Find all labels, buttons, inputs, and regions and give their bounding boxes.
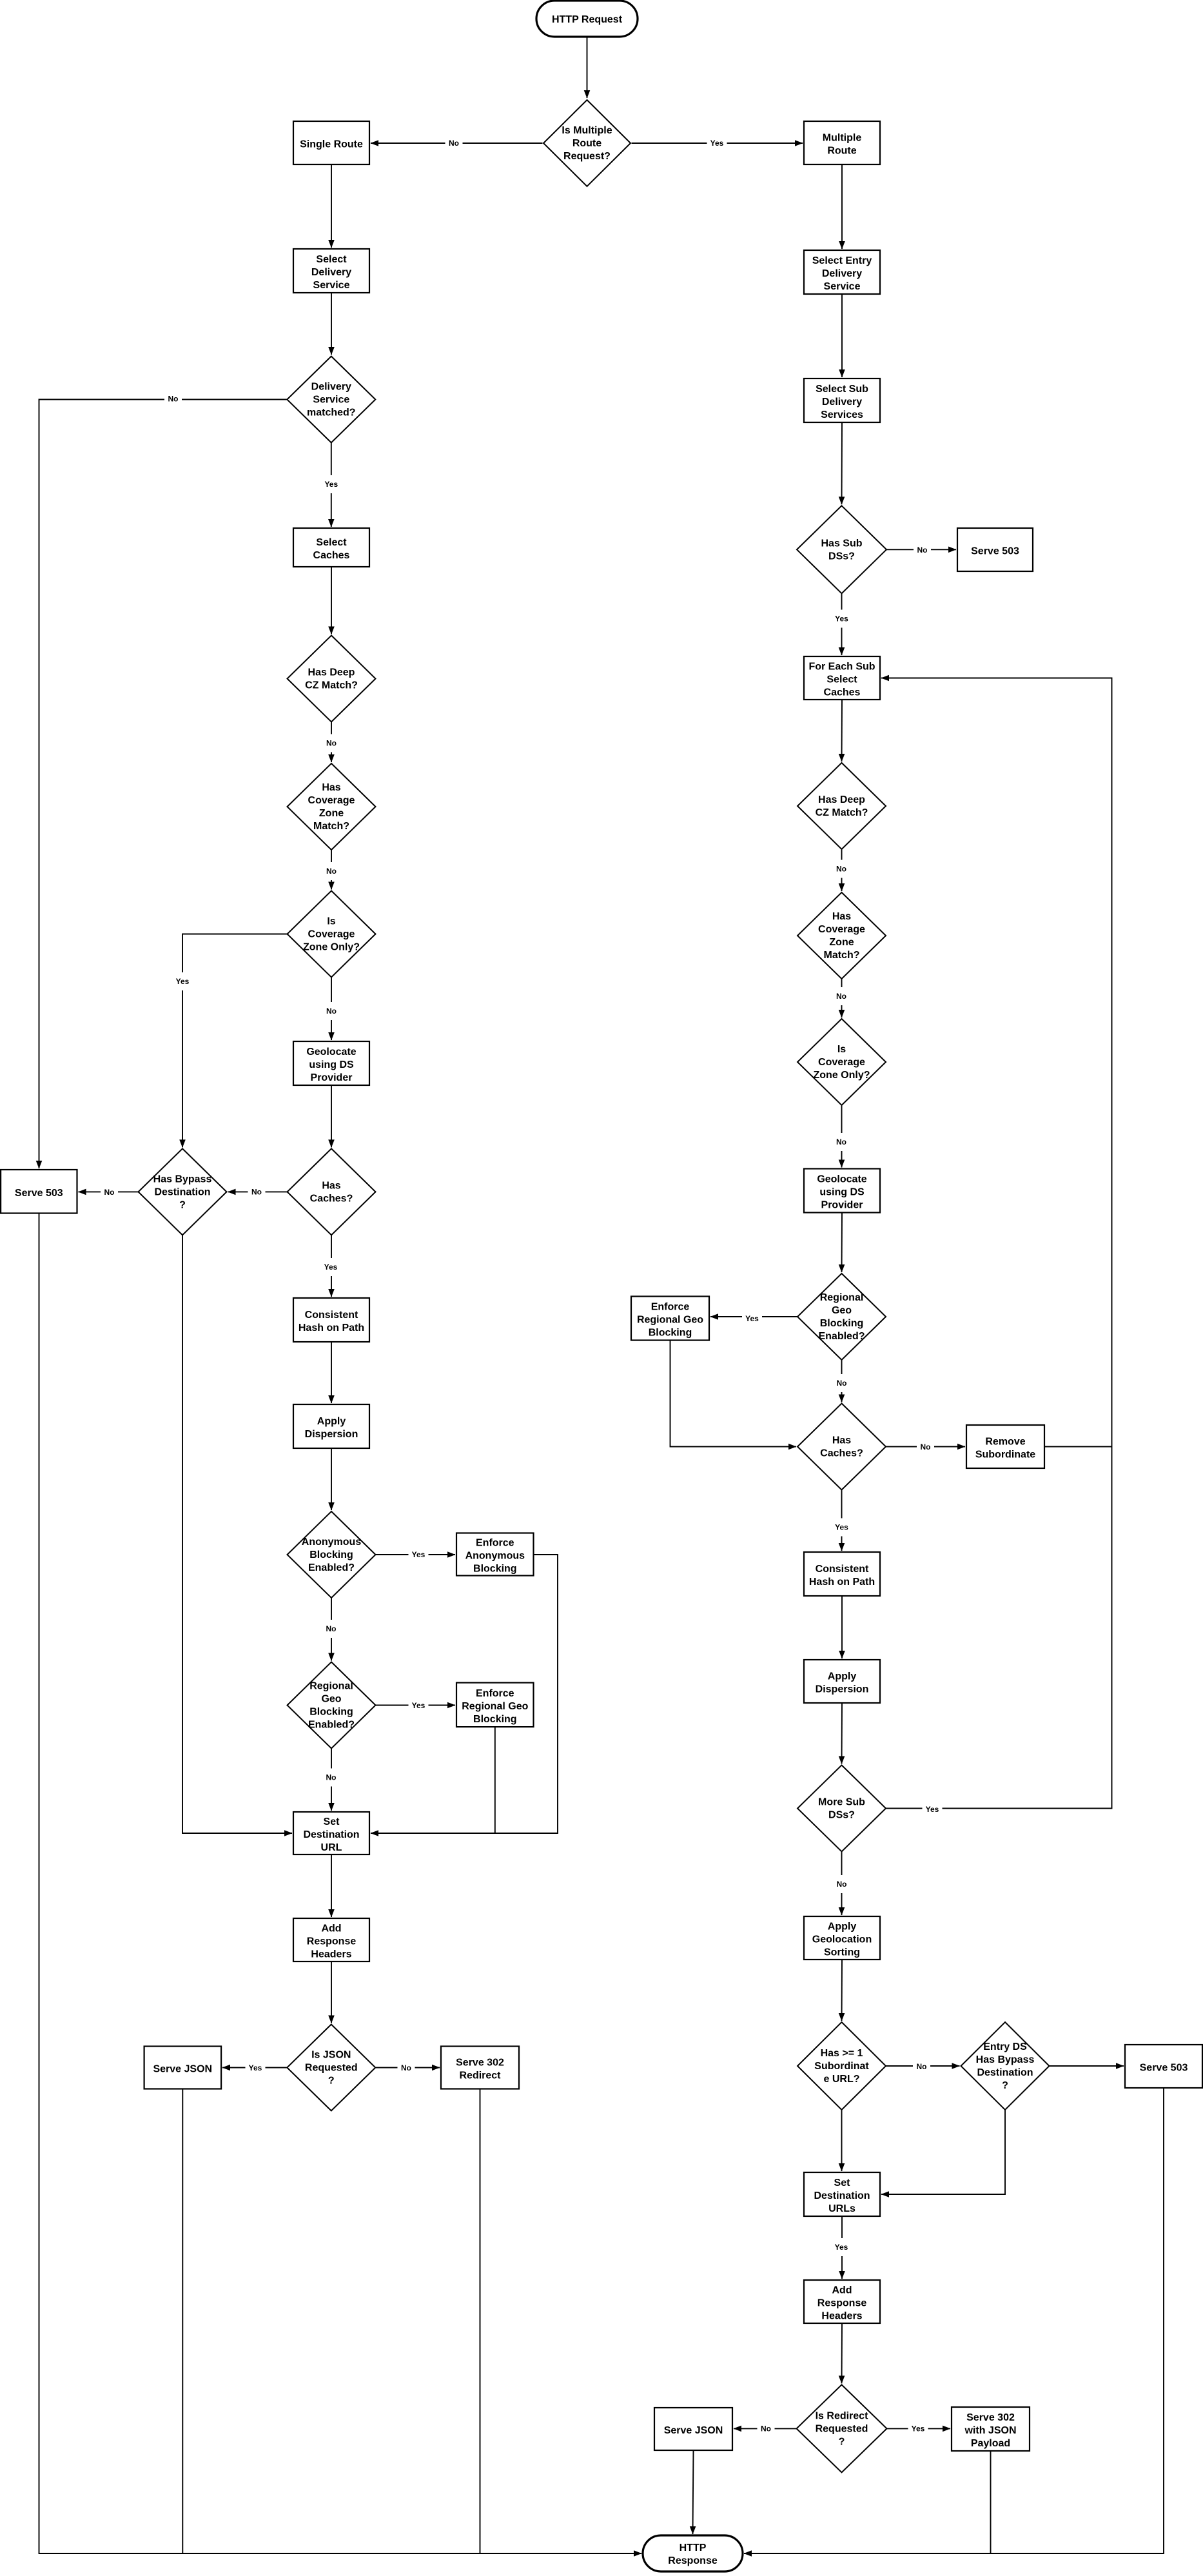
Is Coverage Zone Only? decision (right) — [797, 1019, 886, 1105]
svg-text:Enabled?: Enabled? — [818, 1331, 865, 1342]
svg-text:Delivery: Delivery — [311, 382, 351, 393]
svg-text:Caches: Caches — [313, 550, 350, 561]
svg-text:Geolocate: Geolocate — [817, 1174, 866, 1185]
Has Caches? decision (right) — [797, 1404, 886, 1490]
svg-text:URL: URL — [321, 1842, 342, 1853]
label No — [164, 390, 182, 408]
svg-text:Has Deep: Has Deep — [308, 667, 355, 678]
wire: Is Coverage Zone Only? No to Geolocate using DS Provider (right) — [841, 1105, 843, 1168]
wire: Serve 302 Redirect to HTTP Response junction — [480, 2089, 481, 2554]
label No — [323, 734, 340, 752]
svg-text:Anonymous: Anonymous — [302, 1537, 362, 1548]
wire: For Each Sub Select Caches to Has Deep CZ Match? — [841, 700, 843, 762]
Is Coverage Zone Only? decision (left) — [288, 891, 376, 978]
wire: Entry DS Has Bypass Destination? to Set Destination URLs — [881, 2110, 1005, 2194]
svg-text:Service: Service — [824, 281, 861, 292]
wire: Set Destination URL to Add Response Headers — [331, 1854, 332, 1917]
Has Caches? decision (left) — [288, 1148, 376, 1235]
wire: Delivery Service matched? Yes to Select Caches — [331, 443, 332, 527]
Select Entry Delivery Service box — [804, 250, 880, 294]
svg-text:Yes: Yes — [710, 139, 724, 148]
Serve 302 Redirect box — [441, 2047, 519, 2089]
wire: Has Caches? No to Has Bypass Destination? — [228, 1191, 288, 1192]
wire: Has Deep CZ Match? No to Has Coverage Zone Match? — [331, 722, 332, 763]
svg-text:Zone: Zone — [829, 937, 854, 948]
svg-text:No: No — [326, 867, 337, 876]
svg-text:Set: Set — [324, 1816, 340, 1827]
wire: Serve JSON to HTTP Response — [693, 2450, 694, 2534]
wire: Is Coverage Zone Only? No to Geolocate using DS Provider — [331, 978, 332, 1041]
svg-text:No: No — [326, 739, 337, 748]
svg-text:Headers: Headers — [311, 1949, 351, 1960]
svg-text:Dispersion: Dispersion — [305, 1429, 358, 1440]
svg-text:No: No — [837, 1379, 847, 1388]
svg-text:No: No — [917, 2062, 927, 2071]
svg-text:Provider: Provider — [821, 1200, 863, 1211]
wire: Anonymous Blocking Enabled? Yes to Enforce Anonymous Blocking — [376, 1554, 456, 1555]
svg-text:Response: Response — [307, 1936, 357, 1947]
Serve 302 with JSON Payload box — [952, 2407, 1030, 2451]
wire: Regional Geo Blocking Enabled? Yes to Enforce Regional Geo Blocking (right) — [710, 1316, 797, 1317]
wire: More Sub DSs? Yes loop to For Each Sub Select Caches — [881, 678, 1112, 1809]
svg-text:No: No — [168, 395, 179, 404]
svg-text:Request?: Request? — [563, 151, 611, 162]
wire: Is Redirect Requested? Yes to Serve 302 with JSON Payload — [887, 2428, 951, 2429]
Has Sub DSs? decision — [797, 506, 886, 593]
svg-text:Caches?: Caches? — [820, 1448, 863, 1459]
wire: Anonymous Blocking Enabled? No to Regional Geo Blocking Enabled? — [331, 1598, 332, 1661]
svg-text:Apply: Apply — [828, 1671, 857, 1682]
wire: Geolocate using DS Provider to Regional Geo Blocking Enabled? (right) — [841, 1213, 843, 1273]
svg-text:No: No — [326, 1773, 337, 1782]
wire: Apply Dispersion to More Sub DSs? — [841, 1703, 843, 1764]
svg-text:Yes: Yes — [835, 615, 848, 624]
svg-text:matched?: matched? — [307, 408, 356, 418]
svg-text:Is Redirect: Is Redirect — [816, 2411, 868, 2422]
svg-text:Response: Response — [668, 2555, 718, 2566]
svg-text:HTTP: HTTP — [680, 2542, 707, 2553]
wire: Has >= 1 Subordinate URL? No to Entry DS Has Bypass Destination? — [886, 2065, 960, 2067]
svg-text:Blocking: Blocking — [473, 1714, 517, 1725]
svg-text:Regional: Regional — [820, 1292, 864, 1303]
Geolocate using DS Provider box (left) — [293, 1041, 369, 1085]
svg-text:Subordinate: Subordinate — [975, 1450, 1035, 1460]
wire: Set Destination URLs Yes to Add Response Headers (right) — [841, 2216, 843, 2279]
Regional Geo Blocking Enabled? decision (right) — [797, 1273, 886, 1360]
svg-text:Enforce: Enforce — [476, 1688, 514, 1699]
svg-text:Is: Is — [327, 916, 335, 927]
svg-text:Zone: Zone — [319, 808, 344, 819]
svg-text:Enabled?: Enabled? — [308, 1562, 355, 1573]
Enforce Anonymous Blocking box — [456, 1533, 534, 1576]
Is Redirect Requested? decision — [797, 2384, 887, 2472]
svg-text:Zone Only?: Zone Only? — [814, 1070, 870, 1081]
label Yes — [246, 2059, 266, 2077]
Delivery Service matched? decision — [287, 357, 375, 443]
label No — [758, 2420, 775, 2438]
svg-text:Select Sub: Select Sub — [816, 384, 868, 395]
svg-text:Add: Add — [832, 2285, 852, 2296]
svg-text:Has Deep: Has Deep — [818, 794, 865, 805]
svg-text:No: No — [837, 1880, 847, 1889]
svg-text:Destination: Destination — [154, 1187, 210, 1198]
wire: Serve 503 (left) to HTTP Response — [39, 1214, 642, 2554]
Remove Subordinate box — [966, 1425, 1044, 1468]
label Yes — [707, 134, 727, 152]
label Yes — [908, 2420, 928, 2438]
label No — [323, 862, 340, 880]
svg-text:using DS: using DS — [309, 1059, 354, 1070]
svg-text:Delivery: Delivery — [822, 397, 862, 408]
svg-text:Redirect: Redirect — [459, 2070, 501, 2081]
label Yes — [832, 1519, 852, 1537]
svg-text:No: No — [326, 1624, 337, 1633]
svg-text:DSs?: DSs? — [828, 551, 855, 562]
svg-text:Yes: Yes — [249, 2063, 262, 2072]
label No — [833, 1875, 850, 1893]
Serve JSON box (right) — [654, 2408, 732, 2450]
svg-text:Destination: Destination — [303, 1829, 359, 1840]
label No — [101, 1183, 118, 1201]
label No — [913, 2058, 930, 2076]
wire: Enforce Regional Geo Blocking to Has Caches? (right) — [670, 1341, 797, 1447]
svg-text:Requested: Requested — [305, 2063, 358, 2074]
svg-text:Multiple: Multiple — [823, 133, 862, 144]
wire: Has Bypass Destination? to Set Destination URL — [182, 1235, 292, 1833]
For Each Sub Select Caches box — [804, 656, 880, 700]
wire: Enforce Regional Geo Blocking to Set Destination URL junction — [494, 1727, 496, 1833]
svg-text:No: No — [921, 1442, 931, 1451]
wire: More Sub DSs? No to Apply Geolocation Sorting — [841, 1852, 843, 1916]
svg-text:Response: Response — [817, 2298, 867, 2309]
wire: Has Deep CZ Match? No to Has Coverage Zone Match? (right) — [841, 849, 843, 891]
label No — [917, 1438, 934, 1456]
Serve 503 box (left) — [1, 1170, 77, 1214]
wire: Has Sub DSs? No to Serve 503 (right top) — [886, 549, 956, 550]
Has Bypass Destination? decision — [139, 1148, 227, 1235]
label Yes — [832, 610, 852, 628]
wire: Delivery Service matched? No to Serve 503 (left) — [39, 400, 288, 1169]
svg-text:Blocking: Blocking — [820, 1318, 864, 1329]
svg-text:No: No — [251, 1188, 262, 1197]
wire: Consistent Hash on Path to Apply Dispersion — [331, 1342, 332, 1403]
svg-text:Dispersion: Dispersion — [816, 1684, 869, 1695]
svg-text:Yes: Yes — [835, 1523, 848, 1532]
svg-text:Has >= 1: Has >= 1 — [821, 2048, 863, 2059]
Entry DS Has Bypass Destination? decision — [961, 2022, 1050, 2110]
svg-text:No: No — [401, 2063, 411, 2072]
Geolocate using DS Provider box (right) — [804, 1169, 880, 1213]
svg-text:Serve JSON: Serve JSON — [153, 2064, 212, 2075]
label No — [833, 1133, 850, 1151]
svg-text:Regional Geo: Regional Geo — [637, 1315, 703, 1326]
svg-text:Payload: Payload — [971, 2438, 1010, 2449]
svg-text:Delivery: Delivery — [822, 268, 862, 279]
label No — [445, 134, 463, 152]
wire: Has Coverage Zone Match? No to Is Coverage Zone Only? — [331, 850, 332, 890]
Has Coverage Zone Match? decision (left) — [288, 763, 376, 850]
label Yes — [321, 475, 341, 493]
svg-text:Has Bypass: Has Bypass — [153, 1174, 212, 1185]
svg-text:Geolocation: Geolocation — [812, 1934, 872, 1945]
Serve 503 box (right bottom) — [1125, 2045, 1202, 2088]
svg-text:URLs: URLs — [828, 2203, 856, 2214]
svg-text:CZ Match?: CZ Match? — [816, 807, 868, 818]
wire: Consistent Hash on Path to Apply Dispersion (right) — [841, 1596, 843, 1658]
svg-text:Hash on Path: Hash on Path — [298, 1322, 364, 1333]
wire: Has Sub DSs? Yes to For Each Sub Select Caches — [841, 593, 843, 655]
svg-text:Select: Select — [316, 254, 347, 265]
svg-text:Has: Has — [832, 911, 851, 922]
Select Sub Delivery Services box — [804, 379, 880, 422]
svg-text:Blocking: Blocking — [649, 1328, 692, 1339]
svg-text:?: ? — [1002, 2080, 1008, 2091]
svg-text:Headers: Headers — [821, 2311, 862, 2322]
svg-text:Serve 503: Serve 503 — [15, 1188, 63, 1199]
svg-text:Blocking: Blocking — [473, 1564, 517, 1575]
svg-text:Caches?: Caches? — [310, 1194, 353, 1204]
svg-text:Regional Geo: Regional Geo — [462, 1701, 528, 1712]
label No — [322, 1769, 340, 1787]
svg-text:Entry DS: Entry DS — [983, 2041, 1027, 2052]
Is Multiple Route Request? decision — [543, 100, 631, 186]
wire: Select Delivery Service to Delivery Service matched? — [331, 293, 332, 355]
Anonymous Blocking Enabled? decision — [288, 1511, 376, 1598]
Multiple Route box — [804, 121, 880, 164]
wire: Has Bypass Destination? No to Serve 503 (left) — [79, 1191, 139, 1192]
wire: Entry DS Has Bypass Destination? to Serve 503 (right bottom) — [1050, 2065, 1124, 2067]
svg-text:Yes: Yes — [926, 1805, 939, 1814]
svg-text:No: No — [104, 1188, 115, 1197]
Select Caches box — [293, 528, 369, 567]
Has Deep CZ Match? decision (left) — [288, 636, 376, 722]
svg-text:Is JSON: Is JSON — [311, 2050, 351, 2061]
Select Delivery Service box — [293, 249, 369, 293]
label Yes — [832, 2238, 852, 2256]
wire: Select Sub Delivery Services to Has Sub DSs? — [841, 422, 843, 504]
svg-text:Caches: Caches — [824, 687, 861, 698]
wire: Is Multiple Route Request? Yes to Multiple Route — [632, 143, 803, 144]
svg-text:Yes: Yes — [412, 1550, 425, 1559]
svg-text:Service: Service — [313, 395, 349, 406]
svg-text:Match?: Match? — [313, 821, 349, 832]
Add Response Headers box (left) — [293, 1918, 369, 1961]
wire: Single Route to Select Delivery Service — [331, 164, 332, 248]
wire: Add Response Headers to Is Redirect Requested? — [841, 2323, 843, 2383]
svg-text:Provider: Provider — [311, 1072, 353, 1083]
svg-text:Yes: Yes — [412, 1701, 425, 1710]
svg-text:No: No — [326, 1007, 337, 1016]
label No — [833, 987, 850, 1005]
svg-text:Enforce: Enforce — [651, 1302, 690, 1313]
svg-text:Apply: Apply — [828, 1922, 857, 1932]
svg-text:Route: Route — [572, 138, 601, 149]
svg-text:Is: Is — [837, 1044, 846, 1055]
wire: Is Multiple Route Request? No to Single Route — [371, 143, 543, 144]
wire: Remove Subordinate to loop junction — [1044, 1446, 1112, 1448]
label Yes — [923, 1800, 943, 1818]
svg-text:Enforce: Enforce — [476, 1538, 514, 1549]
wire: Geolocate using DS Provider to Has Caches? — [331, 1085, 332, 1147]
svg-text:No: No — [449, 139, 459, 148]
wire: Enforce Anonymous Blocking to Set Destination URL — [371, 1555, 558, 1833]
label No — [914, 541, 931, 559]
svg-text:Anonymous: Anonymous — [465, 1551, 525, 1562]
svg-text:Destination: Destination — [814, 2190, 870, 2201]
Add Response Headers box (right) — [804, 2280, 880, 2323]
svg-text:Route: Route — [827, 146, 856, 157]
label No — [322, 1620, 340, 1638]
svg-text:DSs?: DSs? — [828, 1810, 855, 1821]
Consistent Hash on Path box (left) — [293, 1298, 369, 1342]
wire: Regional Geo Blocking Enabled? No to Has Caches? (right) — [841, 1360, 843, 1402]
wire: Has >= 1 Subordinate URL? to Set Destination URLs — [841, 2110, 843, 2171]
wire: Is Redirect Requested? No to Serve JSON (right) — [734, 2428, 797, 2429]
svg-text:Geolocate: Geolocate — [306, 1047, 356, 1057]
Regional Geo Blocking Enabled? decision (left) — [288, 1662, 376, 1749]
svg-text:e URL?: e URL? — [824, 2074, 860, 2085]
svg-text:Select: Select — [826, 674, 857, 685]
svg-text:Serve 302: Serve 302 — [456, 2058, 504, 2069]
svg-text:Has Bypass: Has Bypass — [976, 2054, 1035, 2065]
Serve 503 box (right top) — [957, 528, 1033, 571]
wire: Select Entry Delivery Service to Select Sub Delivery Services — [841, 294, 843, 377]
svg-text:Consistent: Consistent — [305, 1310, 358, 1321]
Single Route box — [293, 121, 369, 164]
label Yes — [173, 972, 193, 990]
label Yes — [321, 1258, 341, 1276]
svg-text:Coverage: Coverage — [308, 795, 355, 806]
wire: Add Response Headers to Is JSON Requested? — [331, 1961, 332, 2023]
svg-text:HTTP Request: HTTP Request — [552, 14, 623, 25]
label No — [398, 2059, 415, 2077]
svg-text:Select: Select — [316, 537, 347, 548]
wire: Has Caches? Yes to Consistent Hash on Path — [331, 1235, 332, 1297]
svg-text:Coverage: Coverage — [818, 924, 865, 935]
Serve JSON box (left) — [144, 2047, 222, 2089]
wire: Select Caches to Has Deep CZ Match? — [331, 567, 332, 634]
svg-text:Yes: Yes — [176, 977, 190, 986]
svg-text:Serve 503: Serve 503 — [1140, 2063, 1188, 2074]
Enforce Regional Geo Blocking box (left) — [456, 1683, 534, 1727]
svg-text:?: ? — [839, 2437, 845, 2448]
svg-text:?: ? — [179, 1200, 186, 1211]
svg-text:Regional: Regional — [309, 1681, 353, 1692]
svg-text:Hash on Path: Hash on Path — [809, 1577, 875, 1588]
Consistent Hash on Path box (right) — [804, 1552, 880, 1596]
svg-text:Is Multiple: Is Multiple — [562, 125, 612, 136]
wire: Regional Geo Blocking Enabled? No to Set Destination URL — [331, 1749, 332, 1811]
label Yes — [409, 1546, 429, 1564]
wire: Multiple Route to Select Entry Delivery Service — [841, 164, 843, 249]
Set Destination URL box — [293, 1812, 369, 1854]
Set Destination URLs box — [804, 2172, 880, 2216]
wire: Apply Geolocation Sorting to Has >= 1 Subordinate URL? — [841, 1960, 843, 2021]
HTTP Response terminator — [643, 2535, 743, 2571]
svg-text:Has Sub: Has Sub — [821, 538, 862, 549]
svg-text:Remove: Remove — [985, 1437, 1025, 1448]
svg-text:Serve JSON: Serve JSON — [664, 2425, 723, 2436]
svg-text:Delivery: Delivery — [311, 267, 351, 278]
Has >= 1 Subordinate URL? decision — [797, 2022, 886, 2110]
svg-text:Zone Only?: Zone Only? — [303, 942, 360, 953]
svg-text:Enabled?: Enabled? — [308, 1720, 355, 1731]
wire: Has Coverage Zone Match? No to Is Coverage Zone Only? (right) — [841, 979, 843, 1018]
svg-text:Coverage: Coverage — [818, 1057, 865, 1068]
svg-text:Has: Has — [322, 1181, 340, 1192]
svg-text:Coverage: Coverage — [308, 929, 355, 940]
wire: Is JSON Requested? Yes to Serve JSON — [222, 2067, 287, 2069]
svg-text:Serve 302: Serve 302 — [966, 2412, 1015, 2423]
svg-text:Yes: Yes — [745, 1314, 759, 1323]
svg-text:Select Entry: Select Entry — [812, 255, 872, 266]
More Sub DSs? decision — [797, 1765, 886, 1852]
svg-text:Consistent: Consistent — [816, 1564, 869, 1575]
svg-text:Has: Has — [322, 782, 340, 793]
svg-text:More Sub: More Sub — [818, 1797, 865, 1808]
svg-text:Set: Set — [834, 2178, 851, 2188]
svg-text:Service: Service — [313, 280, 350, 291]
svg-text:No: No — [836, 992, 846, 1001]
wire: Serve 302 with JSON Payload to HTTP Response junction — [990, 2451, 992, 2553]
wire: Serve JSON to HTTP Response junction — [182, 2089, 183, 2554]
svg-text:No: No — [917, 546, 928, 555]
wire: Has Caches? Yes to Consistent Hash on Path (right) — [841, 1490, 843, 1551]
wire: Regional Geo Blocking Enabled? Yes to Enforce Regional Geo Blocking — [376, 1705, 456, 1706]
svg-text:Yes: Yes — [324, 480, 338, 489]
label No — [248, 1183, 266, 1201]
label Yes — [742, 1310, 762, 1328]
Enforce Regional Geo Blocking box (right) — [631, 1297, 709, 1341]
svg-text:using DS: using DS — [819, 1187, 865, 1198]
wire: Is JSON Requested? No to Serve 302 Redirect — [375, 2067, 440, 2069]
svg-text:Yes: Yes — [912, 2424, 925, 2433]
label No — [833, 1374, 850, 1392]
svg-text:Destination: Destination — [977, 2067, 1033, 2078]
wire: Has Caches? No to Remove Subordinate — [886, 1446, 965, 1448]
svg-text:No: No — [836, 1137, 846, 1146]
wire: HTTP Request to Is Multiple Route Request? — [587, 37, 588, 98]
svg-text:?: ? — [328, 2076, 335, 2087]
svg-text:No: No — [836, 865, 846, 874]
svg-text:Match?: Match? — [824, 950, 860, 961]
Has Coverage Zone Match? decision (right) — [797, 892, 886, 979]
svg-text:Blocking: Blocking — [309, 1549, 353, 1560]
svg-text:Yes: Yes — [324, 1263, 338, 1272]
svg-text:Serve 503: Serve 503 — [971, 546, 1019, 557]
label No — [323, 1002, 340, 1020]
svg-text:Yes: Yes — [835, 2243, 848, 2252]
Apply Dispersion box (right) — [804, 1660, 880, 1703]
wire: Is Coverage Zone Only? Yes to Has Bypass Destination? — [182, 934, 288, 1148]
Apply Dispersion box (left) — [293, 1404, 369, 1448]
svg-text:Single Route: Single Route — [300, 139, 363, 150]
svg-text:with JSON: with JSON — [964, 2425, 1016, 2436]
svg-text:Blocking: Blocking — [309, 1707, 353, 1718]
wire: Apply Dispersion to Anonymous Blocking Enabled? — [331, 1448, 332, 1510]
svg-text:Sorting: Sorting — [824, 1947, 860, 1958]
svg-text:Apply: Apply — [317, 1416, 346, 1427]
Has Deep CZ Match? decision (right) — [797, 763, 886, 849]
svg-text:Add: Add — [321, 1923, 341, 1934]
svg-text:Requested: Requested — [816, 2424, 868, 2435]
svg-text:Geo: Geo — [321, 1694, 341, 1705]
svg-text:Subordinat: Subordinat — [814, 2061, 869, 2072]
Is JSON Requested? decision — [287, 2025, 375, 2111]
HTTP Request terminator — [536, 1, 638, 37]
svg-text:Services: Services — [821, 409, 863, 420]
label No — [833, 860, 850, 878]
